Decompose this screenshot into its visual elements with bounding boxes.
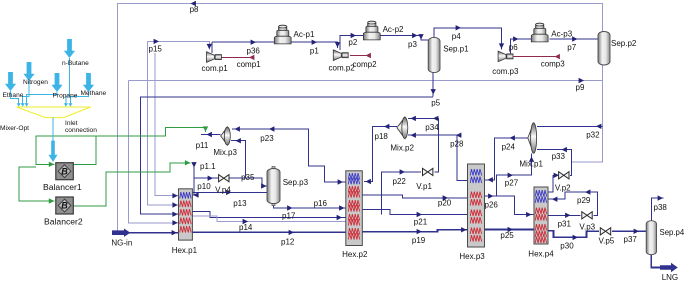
svg-text:Ac-p2: Ac-p2 [383,25,404,34]
wire stream p27 [497,153,532,196]
feed arrow Methane [83,73,94,92]
wire Ethane connector [11,91,19,104]
svg-text:LNG: LNG [662,273,678,281]
feed arrow Ethane [5,72,16,91]
svg-text:p37: p37 [624,235,638,244]
wire com.p1 outlet riser [211,42,213,53]
balancer Balancer1 [56,163,74,180]
feed arrow n-Butane [64,39,75,58]
svg-text:p3: p3 [408,40,417,49]
svg-text:p21: p21 [414,217,428,226]
svg-text:p19: p19 [412,236,426,245]
svg-text:Sep.p4: Sep.p4 [660,228,685,237]
svg-text:Inlet: Inlet [65,120,78,127]
separator Sep.p3 [267,167,280,206]
svg-text:V.p1: V.p1 [416,182,432,191]
svg-text:p8: p8 [190,5,199,14]
svg-text:p23: p23 [260,134,274,143]
wire stream p28 [408,135,468,181]
stream NG-in block arrow [112,229,130,237]
wire stream LNG line [651,255,660,268]
wire stream p16 [274,204,346,208]
wire stream p37 [612,230,646,232]
valve V.p4 [219,175,229,182]
svg-text:com.p2: com.p2 [329,64,356,73]
balancer Balancer2 [56,197,74,214]
separator Sep.p4 [646,221,656,255]
svg-text:p22: p22 [393,177,407,186]
wire stream p35 [229,178,267,186]
wire stream p5 collector [140,97,433,214]
wire stream p6 [510,39,531,54]
svg-text:p5: p5 [431,99,440,108]
wire stream p25 [485,229,535,231]
wire stream p13 [192,191,267,193]
svg-text:p10: p10 [197,182,211,191]
svg-text:p36: p36 [247,46,261,55]
wire stream p32 [537,125,603,127]
svg-text:p17: p17 [282,212,296,221]
separator Sep.p2 [598,32,610,66]
wire energy stream comp1 [222,56,253,58]
svg-text:Hex.p4: Hex.p4 [528,250,554,259]
svg-text:V.p2: V.p2 [555,184,571,193]
svg-text:Hex.p2: Hex.p2 [342,250,368,259]
svg-text:n-Butane: n-Butane [62,60,89,67]
wire stream p24 [485,138,529,180]
wire stream p20 [362,195,467,198]
wire n-Butane connector [66,58,70,104]
svg-text:V.p4: V.p4 [215,185,231,194]
air cooler Ac-p3 [531,23,548,42]
svg-text:p25: p25 [500,231,514,240]
wire stream p9 drop to Hex.p1 [129,81,179,223]
wire stream p3 [380,36,428,41]
svg-text:p6: p6 [509,43,518,52]
heat exchanger Hex.p3 [468,164,485,247]
svg-text:Methane: Methane [81,90,107,97]
wire stream p17 [192,211,345,217]
heat exchanger Hex.p1 [179,189,193,240]
mixer Mix.p1 [528,123,537,153]
wire stream NG-in line [128,232,179,234]
svg-text:NG-in: NG-in [111,239,132,248]
svg-text:p1: p1 [310,47,319,56]
wire Hex.p4 warm feed [497,196,534,215]
wire balancer1 output [73,136,96,165]
separator Sep.p1 [428,37,440,72]
air cooler Ac-p1 [274,25,291,44]
svg-text:Balancer1: Balancer1 [43,182,82,192]
svg-text:Sep.p2: Sep.p2 [611,39,637,48]
wire stream p34 [408,118,439,172]
svg-text:p29: p29 [577,196,591,205]
wire stream p9 horizontal [129,80,603,82]
wire stream p19 [362,230,467,232]
svg-text:p32: p32 [586,131,600,140]
compressor com.p1 [207,52,222,63]
svg-text:p16: p16 [314,199,328,208]
compressor com.p3 [498,51,513,62]
wire balancer tap from mixer [36,136,54,165]
stream LNG block arrow [660,263,678,272]
wire green line to Mix.p3 [36,128,206,136]
svg-text:com.p1: com.p1 [202,64,229,73]
wire energy stream comp2 [350,55,367,57]
valve V.p5 [600,228,610,235]
svg-text:p2: p2 [348,38,357,47]
svg-text:p4: p4 [452,32,461,41]
wire Sep.p2 bottom leg [572,63,603,162]
svg-text:p35: p35 [241,173,255,182]
wire stream p18 [364,127,397,182]
wire V.p2 outlet [570,162,572,176]
wire stream p15 horizontal [148,41,210,49]
wire stream p35 riser to Mix.p3 [231,141,245,179]
valve V.p1 [423,168,433,175]
svg-text:V.p3: V.p3 [579,223,595,232]
heat exchanger Hex.p2 [346,171,363,246]
svg-text:p18: p18 [375,132,389,141]
mixer Mixer-Opt trapezoid [17,107,91,118]
svg-text:comp3: comp3 [541,60,566,69]
wire stream p36 [212,41,274,43]
wire Propane connector [27,92,57,104]
svg-text:B: B [61,201,68,211]
svg-text:p14: p14 [239,223,253,232]
svg-text:p33: p33 [552,152,566,161]
wire stream p31 [548,214,581,216]
wire stream p10 to V.p4 [194,177,219,179]
wire stream p2 [340,36,364,51]
wire stream p1 [291,42,337,48]
wire stream p5 [432,73,434,97]
feed arrow Propane [51,73,62,92]
svg-text:Mix.p2: Mix.p2 [390,143,414,152]
svg-text:Nitrogen: Nitrogen [23,79,48,86]
wire stream p38 [651,198,663,221]
wire stream p26 [485,195,497,197]
air cooler Ac-p2 [363,21,380,40]
svg-text:Balancer2: Balancer2 [44,216,83,226]
svg-text:com.p3: com.p3 [492,67,519,76]
svg-text:p7: p7 [567,43,576,52]
svg-text:p20: p20 [438,199,452,208]
svg-text:Sep.p3: Sep.p3 [283,178,309,187]
svg-text:Ethane: Ethane [3,92,24,99]
wire stream p30 [548,231,599,238]
wire stream p7 [550,38,599,40]
svg-text:p38: p38 [654,203,668,212]
wire stream p33 [537,150,572,162]
svg-text:Hex.p1: Hex.p1 [172,246,198,255]
svg-text:B: B [61,166,68,176]
svg-text:Propane: Propane [53,92,78,99]
mixer Mix.p3 [221,127,231,145]
svg-text:Ac-p3: Ac-p3 [551,30,572,39]
svg-text:Ac-p1: Ac-p1 [294,30,315,39]
svg-text:p27: p27 [505,179,519,188]
svg-text:p9: p9 [576,83,585,92]
wire stream p15 drop to Hex.p1 [148,41,179,205]
svg-text:Mix.p1: Mix.p1 [519,160,543,169]
heat exchanger Hex.p4 [534,187,548,244]
wire stream p29 [548,192,597,215]
svg-text:Mix.p3: Mix.p3 [213,148,237,157]
wire Methane connector [70,92,88,104]
svg-text:p11: p11 [196,141,209,150]
svg-text:p15: p15 [149,45,163,54]
wire stream p21 [362,210,467,215]
svg-text:p31: p31 [558,220,572,229]
Mixer-Opt outlet line [52,118,54,141]
svg-text:p30: p30 [560,241,574,250]
svg-text:Sep.p1: Sep.p1 [443,45,469,54]
mixer Mix.p2 [397,117,408,138]
wire stream p1.1 drop / p10 [193,163,194,195]
wire stream p14 [192,216,345,221]
wire stream p8 loop [118,4,603,233]
wire stream p4 [434,28,502,50]
wire Nitrogen connector [23,81,29,104]
wire balancer2 output p1.1 [73,163,190,206]
svg-text:p1.1: p1.1 [200,162,216,171]
svg-text:comp1: comp1 [237,60,262,69]
svg-text:connection: connection [65,127,97,134]
svg-text:p26: p26 [485,200,499,209]
wire stream p23 [232,129,346,182]
svg-text:Mixer-Opt: Mixer-Opt [0,125,29,132]
valve V.p3 [582,212,592,219]
wire V.p2 feed from Hex.p4 [548,175,558,192]
wire stream p11 [201,134,221,136]
svg-text:p13: p13 [233,199,247,208]
wire stream p22 [382,172,421,215]
svg-text:Hex.p3: Hex.p3 [459,252,485,261]
feed arrow Nitrogen [23,62,34,81]
svg-text:p12: p12 [281,237,295,246]
svg-text:p34: p34 [425,123,439,132]
svg-text:p28: p28 [450,140,464,149]
svg-text:comp2: comp2 [353,60,378,69]
wire balancer2 feed [19,167,54,201]
wire stream p12 [192,231,345,233]
Mixer-Opt outlet thick arrow [49,141,58,162]
valve V.p2 [559,172,569,179]
wire Hex.p1 feed row1 [155,53,178,196]
wire energy stream comp3 [514,56,557,58]
svg-text:p24: p24 [502,142,516,151]
compressor com.p2 [333,50,348,61]
svg-text:V.p5: V.p5 [599,237,615,246]
